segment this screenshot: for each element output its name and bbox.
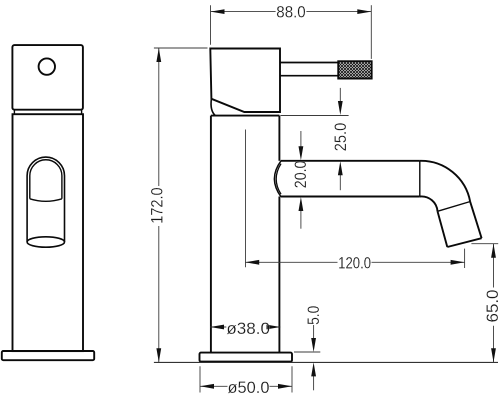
side view: spout outer curve xyxy=(420,161,470,202)
side view: knurled grip xyxy=(338,61,372,78)
dim 65.0: dimension line xyxy=(493,244,495,363)
side view: spout inner curve xyxy=(420,196,438,211)
front view: neck band xyxy=(14,110,81,115)
svg-text:ø50.0: ø50.0 xyxy=(228,378,270,397)
dim 172.0: dimension line xyxy=(158,48,160,362)
dim 20.0: lower leader xyxy=(300,210,302,229)
dim 5.0: lower leader xyxy=(313,376,315,390)
side view: outlet end face xyxy=(447,238,481,247)
dim ø50.0: extension lines xyxy=(200,366,292,392)
front view: inner lever arch xyxy=(30,160,62,199)
dim 25.0: lower leader xyxy=(339,174,341,191)
side view: outlet inner edge xyxy=(438,211,448,247)
dim ø50.0: dimension line xyxy=(200,385,292,387)
dim 120.0: extension line left (centre axis) xyxy=(245,130,464,269)
dim 120.0: arrowheads xyxy=(245,260,464,265)
side view: body right edge lower xyxy=(278,197,280,353)
side view: spout left cap inner arc xyxy=(276,164,281,195)
dim 20.0: arrowheads xyxy=(299,146,304,211)
svg-text:5.0: 5.0 xyxy=(304,306,323,325)
dim 65.0: extension line top xyxy=(471,244,498,363)
dim 120.0: dimension line xyxy=(245,261,464,263)
dim 120.0: extension line right xyxy=(464,249,466,268)
side view: head outline xyxy=(210,49,280,113)
svg-text:65.0: 65.0 xyxy=(483,290,500,323)
dim 5.0: upper leader xyxy=(313,325,315,339)
dim ø50.0: arrowheads xyxy=(200,384,292,389)
svg-text:20.0: 20.0 xyxy=(291,161,310,189)
svg-text:ø38.0: ø38.0 xyxy=(226,319,270,338)
front view: base plate xyxy=(2,351,94,360)
dim ø38.0: arrowheads xyxy=(210,325,281,330)
side view: outlet outer edge xyxy=(470,202,481,238)
front view: head rectangle xyxy=(12,45,83,110)
side view: spout left cap outer arc xyxy=(274,161,281,197)
side view: body right edge upper xyxy=(278,116,280,161)
dim 25.0: upper leader xyxy=(339,88,341,103)
svg-text:172.0: 172.0 xyxy=(147,187,166,223)
dim 88.0: extension lines xyxy=(211,5,372,59)
svg-text:88.0: 88.0 xyxy=(276,3,305,22)
side view: spout top line xyxy=(281,160,420,162)
side view: head front fillet arc xyxy=(211,99,215,116)
side view: handle lever bar xyxy=(280,63,338,76)
side view: body left edge xyxy=(210,116,212,353)
dim ø38.0: dimension line xyxy=(210,326,281,328)
front view: inner lever bottom arc xyxy=(30,199,62,202)
dim 5.0: arrowheads xyxy=(311,338,316,376)
dim 88.0: arrowheads xyxy=(211,9,372,14)
front view: slot outer capsule xyxy=(27,157,64,242)
ground line xyxy=(154,361,498,363)
dim 65.0: arrowheads xyxy=(491,244,496,363)
svg-text:120.0: 120.0 xyxy=(338,253,371,272)
dim 5.0: extension line (base top extended right) xyxy=(294,325,320,390)
dim 172.0: extension line top xyxy=(154,48,208,362)
dim 25.0: extension line (head bottom extended right) xyxy=(281,88,349,190)
side view: spout joint line 1 xyxy=(419,161,421,197)
side view: spout joint line 2 xyxy=(438,202,471,212)
dim 172.0: arrowheads xyxy=(156,48,161,362)
dim 88.0: dimension line xyxy=(211,11,372,13)
dim 25.0: arrowheads xyxy=(338,101,343,175)
dim 20.0: upper leader xyxy=(300,131,302,229)
side view: spout bottom line xyxy=(281,196,420,198)
front view: button circle xyxy=(39,58,55,74)
front view: body rectangle xyxy=(13,114,84,351)
front view: slot bottom ellipse xyxy=(27,237,64,247)
side view: body top line xyxy=(211,115,280,117)
svg-text:25.0: 25.0 xyxy=(331,123,350,152)
side view: base plate xyxy=(200,353,293,362)
